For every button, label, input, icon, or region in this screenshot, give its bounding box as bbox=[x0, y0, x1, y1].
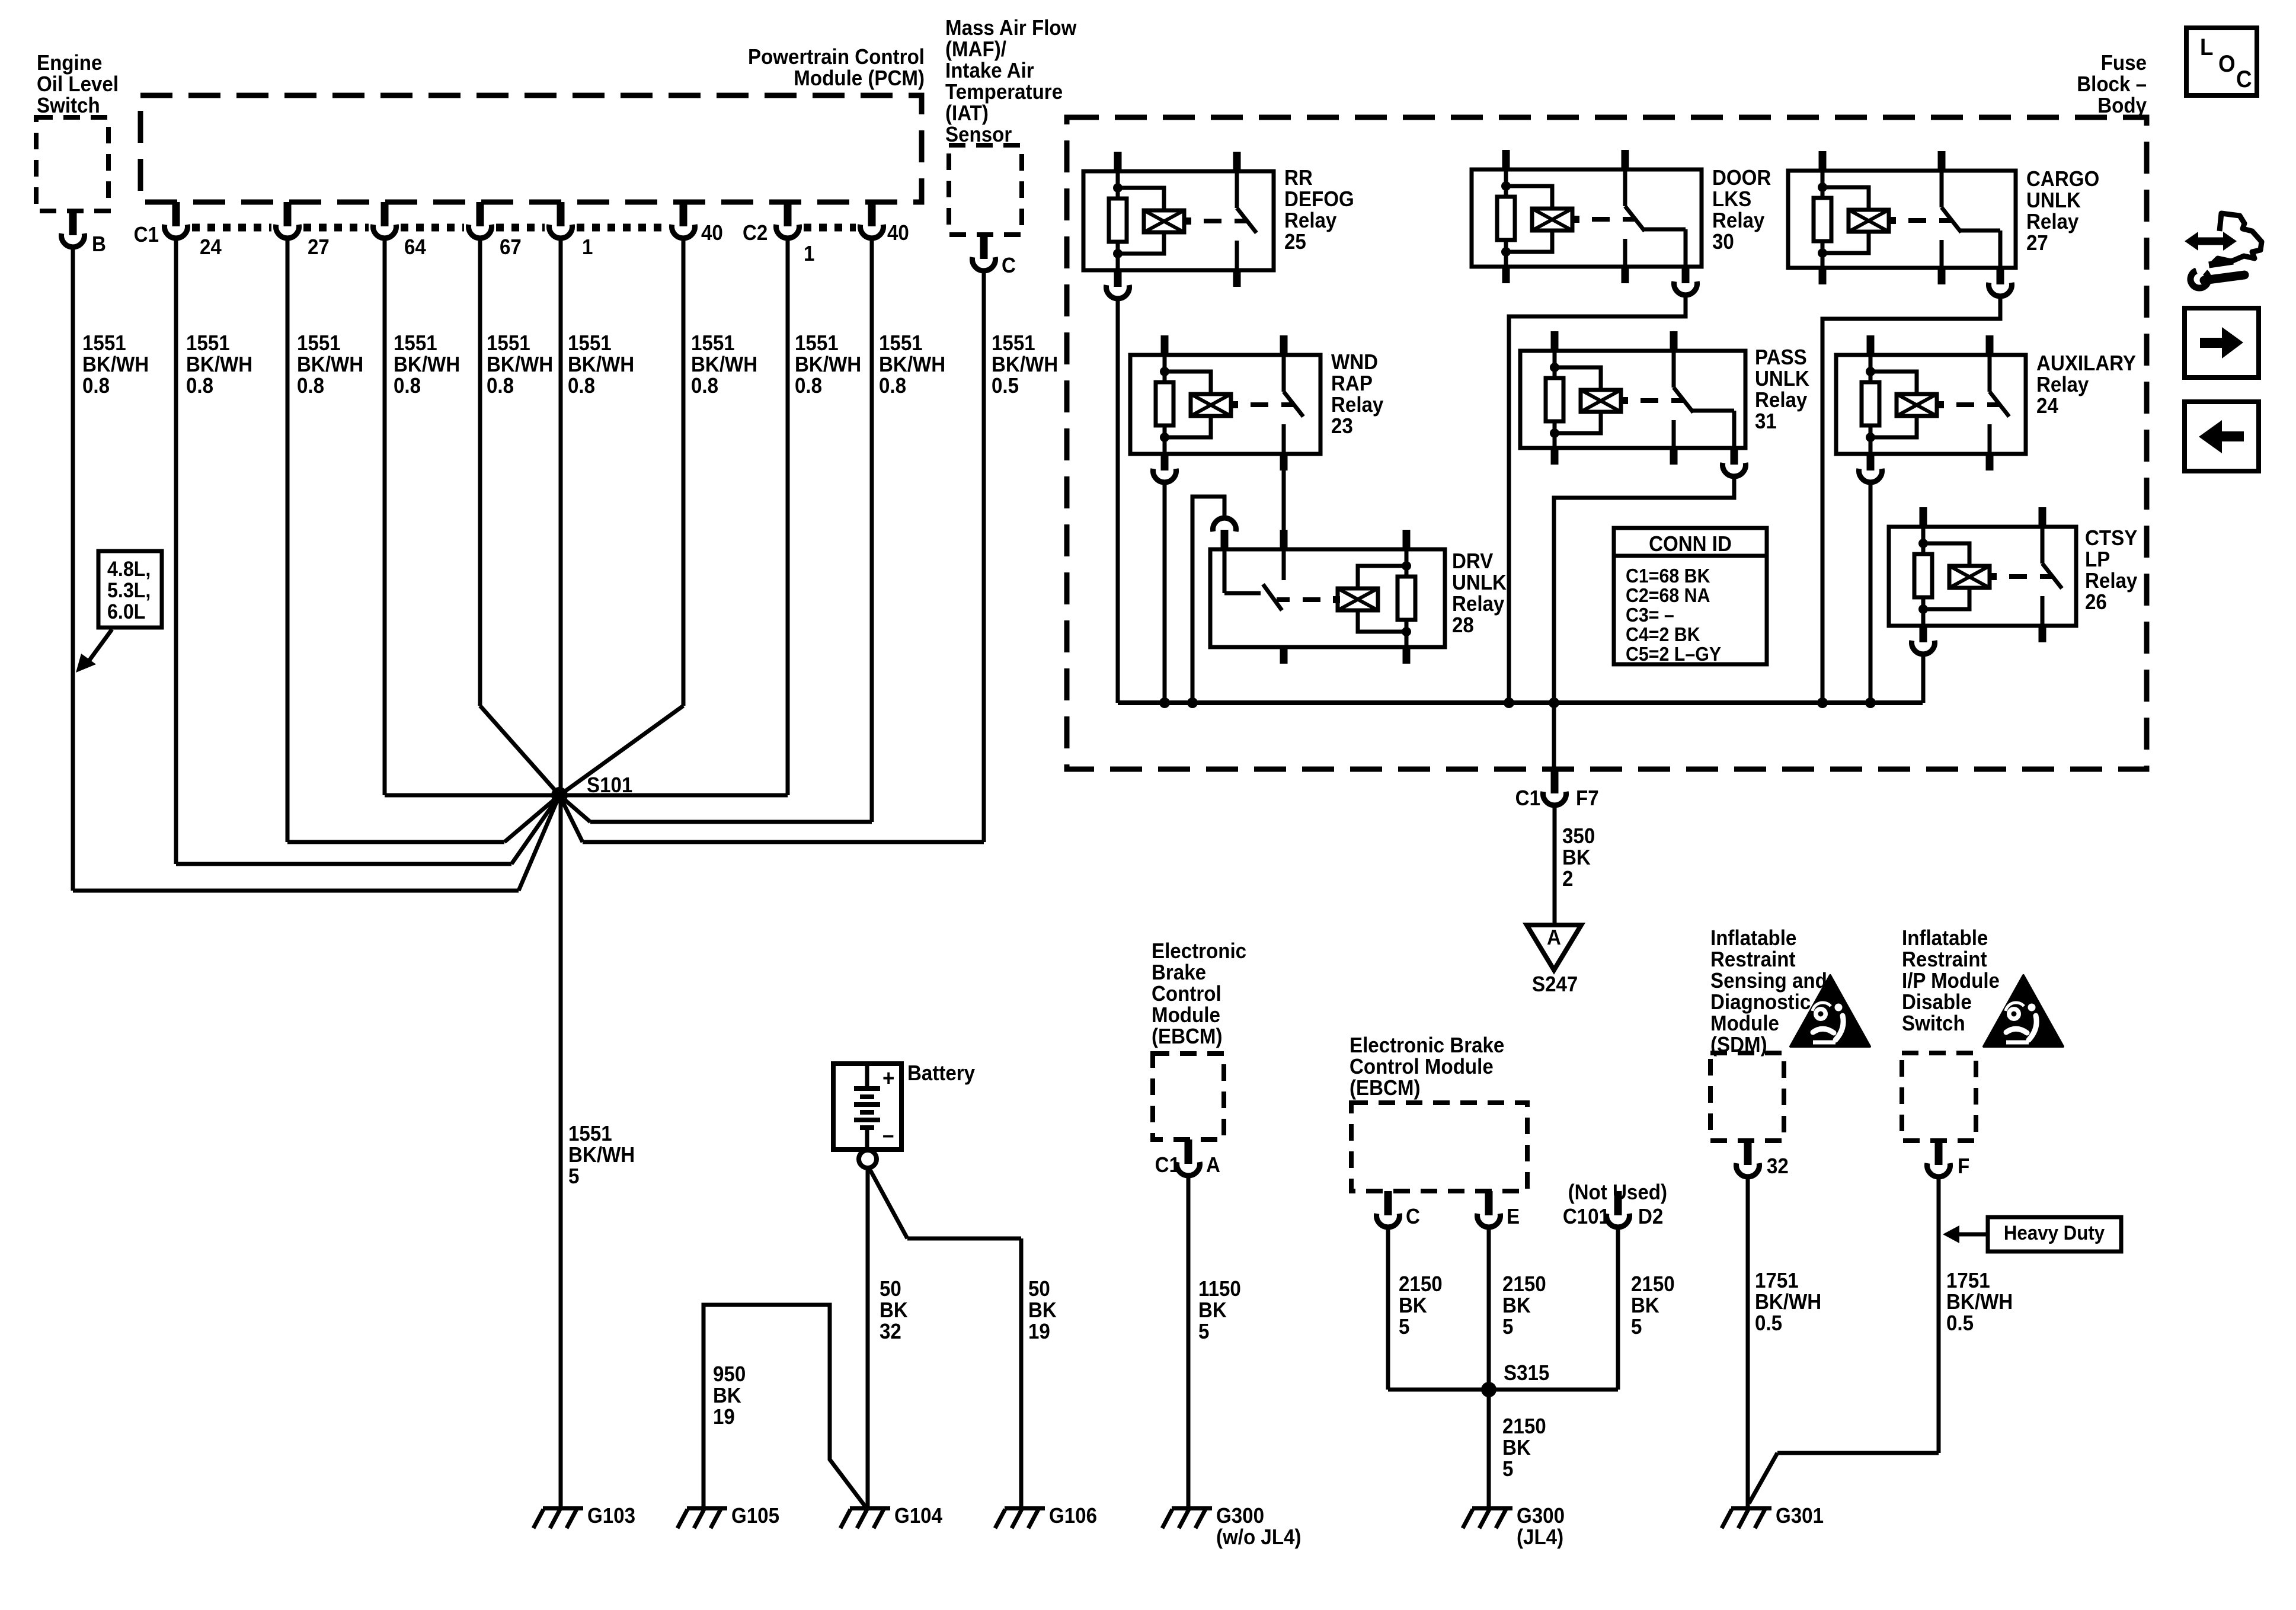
svg-text:4.8L,: 4.8L, bbox=[107, 558, 151, 581]
svg-text:Relay: Relay bbox=[2036, 373, 2089, 397]
svg-text:G104: G104 bbox=[894, 1505, 943, 1528]
svg-text:(EBCM): (EBCM) bbox=[1350, 1077, 1421, 1100]
svg-text:AUXILARY: AUXILARY bbox=[2036, 352, 2136, 376]
svg-text:1551: 1551 bbox=[82, 332, 126, 356]
svg-text:40: 40 bbox=[887, 222, 909, 245]
svg-text:S315: S315 bbox=[1504, 1362, 1549, 1385]
svg-text:Inflatable: Inflatable bbox=[1902, 927, 1988, 950]
svg-text:Battery: Battery bbox=[907, 1062, 976, 1086]
svg-text:Module: Module bbox=[1152, 1004, 1220, 1028]
svg-text:31: 31 bbox=[1755, 410, 1777, 434]
svg-text:Diagnostic: Diagnostic bbox=[1710, 991, 1811, 1014]
svg-text:UNLK: UNLK bbox=[1452, 571, 1507, 595]
svg-text:Relay: Relay bbox=[2085, 569, 2138, 593]
svg-text:1751: 1751 bbox=[1755, 1269, 1799, 1293]
svg-text:24: 24 bbox=[2036, 395, 2059, 418]
svg-text:0.8: 0.8 bbox=[487, 375, 514, 398]
svg-text:1551: 1551 bbox=[691, 332, 735, 356]
svg-text:0.8: 0.8 bbox=[394, 375, 421, 398]
svg-text:LKS: LKS bbox=[1712, 188, 1751, 212]
svg-text:F: F bbox=[1958, 1155, 1969, 1179]
svg-text:Temperature: Temperature bbox=[945, 81, 1063, 104]
svg-text:A: A bbox=[1206, 1154, 1220, 1177]
svg-text:5: 5 bbox=[1198, 1320, 1209, 1344]
svg-text:Control: Control bbox=[1152, 982, 1221, 1006]
svg-text:L: L bbox=[2200, 34, 2213, 61]
svg-text:I/P Module: I/P Module bbox=[1902, 969, 2000, 993]
svg-text:0.5: 0.5 bbox=[1755, 1312, 1782, 1336]
svg-text:Control Module: Control Module bbox=[1350, 1055, 1494, 1079]
svg-text:23: 23 bbox=[1331, 415, 1353, 438]
svg-text:Brake: Brake bbox=[1152, 961, 1206, 985]
svg-text:(w/o JL4): (w/o JL4) bbox=[1216, 1526, 1301, 1550]
svg-text:0.8: 0.8 bbox=[297, 375, 324, 398]
svg-text:Module: Module bbox=[1710, 1012, 1779, 1036]
svg-text:1551: 1551 bbox=[795, 332, 839, 356]
svg-text:C: C bbox=[2236, 66, 2252, 93]
svg-text:64: 64 bbox=[404, 236, 427, 260]
svg-text:BK/WH: BK/WH bbox=[992, 353, 1058, 377]
svg-text:RR: RR bbox=[1284, 167, 1313, 190]
svg-text:PASS: PASS bbox=[1755, 346, 1807, 370]
svg-text:G103: G103 bbox=[587, 1505, 635, 1528]
svg-text:Block –: Block – bbox=[2077, 73, 2147, 97]
svg-text:1551: 1551 bbox=[568, 332, 612, 356]
svg-text:BK/WH: BK/WH bbox=[691, 353, 757, 377]
svg-text:0.8: 0.8 bbox=[879, 375, 906, 398]
svg-text:2150: 2150 bbox=[1502, 1273, 1546, 1297]
svg-text:BK: BK bbox=[1399, 1294, 1427, 1318]
svg-text:Relay: Relay bbox=[2026, 210, 2079, 234]
svg-text:BK/WH: BK/WH bbox=[487, 353, 553, 377]
svg-text:G301: G301 bbox=[1776, 1505, 1824, 1528]
svg-text:1551: 1551 bbox=[487, 332, 530, 356]
svg-text:0.8: 0.8 bbox=[568, 375, 595, 398]
svg-text:27: 27 bbox=[308, 236, 330, 260]
svg-text:BK/WH: BK/WH bbox=[568, 353, 634, 377]
svg-text:Inflatable: Inflatable bbox=[1710, 927, 1796, 950]
svg-text:C1: C1 bbox=[134, 223, 159, 247]
svg-text:S247: S247 bbox=[1532, 973, 1578, 997]
svg-text:50: 50 bbox=[1028, 1278, 1050, 1301]
svg-text:C: C bbox=[1406, 1205, 1420, 1229]
svg-text:1551: 1551 bbox=[394, 332, 437, 356]
svg-text:C2=68 NA: C2=68 NA bbox=[1626, 584, 1710, 606]
svg-text:S101: S101 bbox=[587, 774, 632, 798]
svg-text:2150: 2150 bbox=[1631, 1273, 1675, 1297]
svg-text:5: 5 bbox=[1502, 1315, 1513, 1339]
svg-text:67: 67 bbox=[500, 236, 522, 260]
svg-text:DEFOG: DEFOG bbox=[1284, 188, 1354, 212]
svg-text:C5=2 L–GY: C5=2 L–GY bbox=[1626, 643, 1721, 665]
svg-text:CONN ID: CONN ID bbox=[1649, 533, 1732, 556]
svg-text:G300: G300 bbox=[1517, 1505, 1565, 1528]
svg-text:1150: 1150 bbox=[1198, 1278, 1241, 1301]
svg-text:Restraint: Restraint bbox=[1710, 948, 1796, 972]
svg-text:26: 26 bbox=[2085, 591, 2107, 614]
svg-text:C1: C1 bbox=[1515, 787, 1540, 811]
svg-text:0.8: 0.8 bbox=[795, 375, 822, 398]
svg-text:Relay: Relay bbox=[1452, 593, 1505, 616]
svg-text:BK/WH: BK/WH bbox=[394, 353, 460, 377]
svg-text:C1=68 BK: C1=68 BK bbox=[1626, 565, 1710, 587]
svg-text:BK/WH: BK/WH bbox=[82, 353, 149, 377]
svg-text:BK/WH: BK/WH bbox=[297, 353, 363, 377]
svg-text:C101: C101 bbox=[1563, 1205, 1610, 1229]
svg-text:Engine: Engine bbox=[37, 52, 102, 75]
svg-text:BK: BK bbox=[1562, 846, 1591, 870]
svg-text:D2: D2 bbox=[1638, 1205, 1663, 1229]
svg-text:BK: BK bbox=[713, 1384, 741, 1408]
svg-text:RAP: RAP bbox=[1331, 372, 1373, 396]
svg-text:2150: 2150 bbox=[1399, 1273, 1443, 1297]
svg-text:Powertrain Control: Powertrain Control bbox=[748, 46, 925, 69]
svg-text:CTSY: CTSY bbox=[2085, 527, 2137, 550]
svg-text:BK/WH: BK/WH bbox=[1946, 1291, 2013, 1314]
svg-text:19: 19 bbox=[713, 1406, 735, 1429]
svg-text:24: 24 bbox=[200, 236, 222, 260]
svg-text:BK/WH: BK/WH bbox=[1755, 1291, 1821, 1314]
svg-text:Electronic Brake: Electronic Brake bbox=[1350, 1034, 1504, 1058]
svg-text:1551: 1551 bbox=[992, 332, 1035, 356]
svg-text:DOOR: DOOR bbox=[1712, 167, 1771, 190]
svg-text:Heavy Duty: Heavy Duty bbox=[2004, 1221, 2105, 1244]
svg-text:DRV: DRV bbox=[1452, 550, 1493, 574]
svg-text:Intake Air: Intake Air bbox=[945, 59, 1034, 83]
svg-text:32: 32 bbox=[880, 1320, 901, 1344]
svg-text:5: 5 bbox=[1399, 1315, 1409, 1339]
svg-text:0.8: 0.8 bbox=[691, 375, 718, 398]
svg-text:Restraint: Restraint bbox=[1902, 948, 1987, 972]
svg-text:BK: BK bbox=[1502, 1436, 1531, 1460]
svg-text:Relay: Relay bbox=[1755, 389, 1808, 412]
svg-text:C2: C2 bbox=[743, 222, 768, 245]
svg-text:2150: 2150 bbox=[1502, 1415, 1546, 1439]
svg-text:BK/WH: BK/WH bbox=[879, 353, 945, 377]
svg-text:WND: WND bbox=[1331, 351, 1378, 375]
svg-text:UNLK: UNLK bbox=[2026, 189, 2081, 213]
svg-text:G105: G105 bbox=[731, 1505, 779, 1528]
svg-text:G300: G300 bbox=[1216, 1505, 1264, 1528]
svg-text:(MAF)/: (MAF)/ bbox=[945, 38, 1006, 62]
svg-text:28: 28 bbox=[1452, 614, 1474, 638]
svg-text:UNLK: UNLK bbox=[1755, 367, 1809, 391]
svg-text:Electronic: Electronic bbox=[1152, 940, 1246, 964]
svg-text:6.0L: 6.0L bbox=[107, 601, 145, 624]
svg-text:BK: BK bbox=[1631, 1294, 1659, 1318]
svg-text:BK/WH: BK/WH bbox=[186, 353, 252, 377]
svg-text:B: B bbox=[92, 233, 106, 257]
svg-text:BK/WH: BK/WH bbox=[568, 1144, 635, 1167]
svg-text:5: 5 bbox=[1502, 1458, 1513, 1481]
svg-text:5: 5 bbox=[1631, 1315, 1642, 1339]
svg-text:A: A bbox=[1547, 926, 1561, 950]
svg-text:19: 19 bbox=[1028, 1320, 1050, 1344]
svg-text:LP: LP bbox=[2085, 548, 2110, 572]
svg-text:Disable: Disable bbox=[1902, 991, 1972, 1014]
svg-text:Module (PCM): Module (PCM) bbox=[794, 67, 925, 91]
svg-text:32: 32 bbox=[1767, 1155, 1789, 1179]
svg-text:Relay: Relay bbox=[1284, 209, 1337, 233]
svg-text:+: + bbox=[882, 1065, 894, 1091]
svg-text:BK/WH: BK/WH bbox=[795, 353, 861, 377]
svg-text:O: O bbox=[2218, 51, 2236, 78]
svg-text:0.8: 0.8 bbox=[186, 375, 213, 398]
svg-text:C: C bbox=[1002, 254, 1016, 278]
svg-text:Mass Air Flow: Mass Air Flow bbox=[945, 17, 1076, 40]
svg-text:1551: 1551 bbox=[568, 1122, 612, 1146]
svg-text:C4=2 BK: C4=2 BK bbox=[1626, 623, 1700, 645]
svg-text:C3= –: C3= – bbox=[1626, 604, 1674, 626]
svg-text:1751: 1751 bbox=[1946, 1269, 1990, 1293]
svg-text:5: 5 bbox=[568, 1165, 579, 1189]
svg-text:30: 30 bbox=[1712, 231, 1734, 254]
svg-text:CARGO: CARGO bbox=[2026, 168, 2099, 191]
svg-text:Fuse: Fuse bbox=[2101, 52, 2147, 75]
svg-text:0.5: 0.5 bbox=[992, 375, 1019, 398]
svg-text:–: – bbox=[882, 1122, 894, 1148]
svg-text:Switch: Switch bbox=[1902, 1012, 1965, 1036]
svg-text:1551: 1551 bbox=[186, 332, 230, 356]
svg-text:0.8: 0.8 bbox=[82, 375, 110, 398]
svg-text:(JL4): (JL4) bbox=[1517, 1526, 1563, 1550]
svg-text:BK: BK bbox=[1502, 1294, 1531, 1318]
svg-text:C1: C1 bbox=[1155, 1154, 1180, 1177]
svg-text:BK: BK bbox=[880, 1299, 908, 1323]
svg-text:1551: 1551 bbox=[297, 332, 341, 356]
svg-text:350: 350 bbox=[1562, 825, 1595, 849]
svg-text:Oil Level: Oil Level bbox=[37, 73, 119, 97]
svg-text:40: 40 bbox=[701, 222, 723, 245]
svg-text:1: 1 bbox=[804, 242, 814, 266]
svg-text:E: E bbox=[1507, 1205, 1520, 1229]
svg-text:(IAT): (IAT) bbox=[945, 102, 989, 126]
svg-text:Switch: Switch bbox=[37, 94, 100, 118]
svg-text:BK: BK bbox=[1198, 1299, 1227, 1323]
svg-text:25: 25 bbox=[1284, 231, 1306, 254]
svg-text:0.5: 0.5 bbox=[1946, 1312, 1974, 1336]
svg-text:950: 950 bbox=[713, 1363, 746, 1387]
svg-text:Relay: Relay bbox=[1712, 209, 1765, 233]
svg-text:BK: BK bbox=[1028, 1299, 1057, 1323]
svg-text:G106: G106 bbox=[1049, 1505, 1097, 1528]
svg-text:27: 27 bbox=[2026, 232, 2048, 255]
svg-text:1551: 1551 bbox=[879, 332, 923, 356]
svg-text:5.3L,: 5.3L, bbox=[107, 580, 151, 603]
svg-text:50: 50 bbox=[880, 1278, 901, 1301]
svg-text:2: 2 bbox=[1562, 868, 1573, 891]
svg-text:Sensing and: Sensing and bbox=[1710, 969, 1827, 993]
svg-text:1: 1 bbox=[582, 236, 593, 260]
svg-text:Body: Body bbox=[2097, 94, 2147, 118]
svg-text:Relay: Relay bbox=[1331, 393, 1384, 417]
svg-text:(EBCM): (EBCM) bbox=[1152, 1025, 1223, 1049]
svg-text:F7: F7 bbox=[1576, 787, 1599, 811]
